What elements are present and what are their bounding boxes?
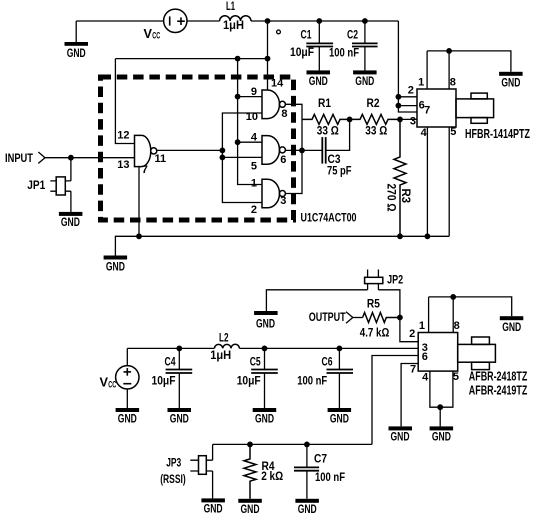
svg-text:C4: C4 bbox=[165, 354, 176, 368]
svg-text:8: 8 bbox=[454, 320, 460, 332]
ground GND7 left of JP2 bbox=[254, 311, 278, 330]
wire U1A output to input rail bbox=[157, 149, 223, 151]
svg-text:GND: GND bbox=[241, 502, 260, 516]
svg-text:GND: GND bbox=[256, 316, 275, 330]
junction dot C6 bbox=[337, 346, 343, 352]
capacitor C3 75pF bbox=[322, 119, 349, 163]
svg-text:2: 2 bbox=[408, 84, 414, 96]
ground GND2 under C1 bbox=[307, 70, 331, 88]
wire top to GND4 bbox=[427, 51, 511, 72]
voltage source Vcc (top) bbox=[164, 9, 187, 32]
junction dot pin6 bbox=[396, 103, 402, 109]
svg-text:C6: C6 bbox=[322, 354, 333, 368]
svg-text:12: 12 bbox=[117, 129, 129, 141]
svg-text:1: 1 bbox=[419, 320, 425, 332]
svg-text:HFBR-1414PTZ: HFBR-1414PTZ bbox=[465, 127, 530, 141]
nand gate U1C (pins 4,5 -> 6) bbox=[262, 136, 285, 165]
wire down to pin 12 bbox=[115, 59, 134, 144]
junction dot pin8/top wire bbox=[446, 48, 452, 54]
svg-text:7: 7 bbox=[424, 105, 430, 117]
svg-text:JP1: JP1 bbox=[27, 178, 45, 192]
svg-text:GND: GND bbox=[106, 260, 125, 274]
svg-text:5: 5 bbox=[251, 161, 257, 173]
svg-text:13: 13 bbox=[117, 159, 129, 171]
ground GND10 under C5 bbox=[253, 408, 277, 425]
junction dot R4 bbox=[247, 442, 253, 448]
wire pin 5 stub bbox=[222, 156, 262, 158]
label Vcc (bottom) bbox=[100, 375, 117, 390]
ground GND16 under R4 bbox=[238, 499, 261, 516]
wire chevron to R5 bbox=[353, 317, 363, 319]
svg-text:GND: GND bbox=[170, 411, 189, 425]
svg-text:GND: GND bbox=[355, 74, 374, 88]
svg-text:V: V bbox=[100, 375, 109, 390]
svg-text:R3: R3 bbox=[399, 189, 413, 204]
wire pins 4/5 to GND13 bbox=[439, 407, 441, 426]
ground GND15 under JP3 bbox=[201, 498, 225, 515]
svg-text:11: 11 bbox=[155, 153, 167, 165]
svg-text:C7: C7 bbox=[314, 452, 327, 466]
wire AFBR pin 7 to GND12 bbox=[401, 364, 418, 427]
RSSI rail bottom bbox=[213, 443, 372, 445]
svg-text:GND: GND bbox=[255, 411, 274, 425]
wire AFBR pins 4,5 down bbox=[430, 371, 453, 407]
svg-text:3: 3 bbox=[280, 195, 286, 207]
wire left rail (pins 10,5,2) bbox=[222, 113, 262, 203]
svg-text:10μF: 10μF bbox=[290, 45, 314, 59]
ground GND12 under pin 7 bbox=[389, 426, 413, 443]
svg-text:1μH: 1μH bbox=[223, 18, 244, 32]
svg-text:(RSSI): (RSSI) bbox=[160, 472, 186, 486]
wire tied-high rail (pins 9,4,1) bbox=[238, 59, 262, 185]
ground GND1 top-left bbox=[65, 21, 89, 60]
wire HFBR pin 8 up bbox=[448, 51, 450, 89]
junction dot R3/gnd rail bbox=[397, 233, 403, 239]
resistor R1 33ohm bbox=[302, 114, 350, 124]
svg-text:14: 14 bbox=[271, 78, 284, 90]
wire to HFBR pin 3 bbox=[398, 118, 417, 120]
svg-text:JP2: JP2 bbox=[387, 272, 403, 286]
svg-text:100 nF: 100 nF bbox=[297, 373, 327, 387]
junction dot pin7/gnd rail bbox=[136, 233, 142, 239]
svg-text:8: 8 bbox=[450, 77, 456, 89]
junction dot R1/R2/C3 bbox=[347, 117, 353, 123]
svg-text:L2: L2 bbox=[219, 331, 229, 345]
junction dot JP1 tap bbox=[68, 155, 74, 161]
HFBR port snout bbox=[456, 99, 494, 118]
junction dot C4 bbox=[176, 346, 182, 352]
svg-text:V: V bbox=[144, 26, 153, 41]
svg-text:GND: GND bbox=[501, 75, 520, 89]
svg-text:9: 9 bbox=[251, 86, 257, 98]
inductor L2 1uH bbox=[214, 344, 239, 348]
svg-text:AFBR-2419TZ: AFBR-2419TZ bbox=[469, 383, 528, 397]
capacitor C6 100nF bbox=[327, 348, 354, 408]
wire pin 2 stub bbox=[398, 96, 417, 98]
capacitor C5 10uF bbox=[251, 348, 278, 408]
AFBR port tab bottom bbox=[472, 362, 490, 369]
svg-text:33 Ω: 33 Ω bbox=[365, 124, 387, 138]
junction dot C5 bbox=[262, 346, 268, 352]
svg-text:10μF: 10μF bbox=[152, 373, 176, 387]
svg-text:100 nF: 100 nF bbox=[329, 45, 359, 59]
svg-text:4: 4 bbox=[422, 372, 429, 384]
svg-text:GND: GND bbox=[118, 411, 137, 425]
ground rail bottom of top section bbox=[115, 236, 449, 256]
nand gate U1D (pins 1,2 -> 3) bbox=[262, 179, 285, 208]
ground GND3 under C2 bbox=[353, 70, 377, 88]
resistor R2 33ohm bbox=[350, 114, 398, 124]
resistor R5 4.7k bbox=[363, 313, 400, 323]
junction dot C2 bbox=[362, 18, 368, 24]
capacitor C1 bbox=[306, 21, 333, 70]
svg-text:CC: CC bbox=[108, 379, 116, 389]
svg-text:4: 4 bbox=[421, 127, 428, 139]
svg-text:3: 3 bbox=[410, 116, 416, 128]
wire GND1 to Vcc source bbox=[76, 20, 163, 22]
wire AFBR pin 1 up bbox=[428, 297, 430, 333]
wire AFBR pin 8 up bbox=[452, 297, 454, 333]
svg-text:R2: R2 bbox=[367, 96, 380, 110]
ground GND6 bottom of U1 bbox=[104, 256, 128, 274]
ground GND9 under C4 bbox=[168, 408, 192, 425]
wire R5 node to AFBR pin 2 bbox=[400, 318, 418, 342]
svg-text:5: 5 bbox=[450, 126, 456, 138]
jumper JP1 bbox=[50, 158, 71, 212]
resistor R3 270ohm vertical bbox=[394, 119, 406, 236]
wire U1C output through to C3 bbox=[285, 149, 322, 151]
wire Vcc2 up to main rail bbox=[126, 348, 128, 365]
junction dot output/rail bbox=[220, 148, 226, 154]
wire JP2 right down to R5 node bbox=[378, 290, 400, 318]
main supply wire bottom section bbox=[127, 347, 214, 349]
output connector chevron bbox=[346, 312, 353, 323]
svg-text:270 Ω: 270 Ω bbox=[384, 184, 398, 212]
svg-text:C1: C1 bbox=[301, 28, 312, 42]
svg-text:L1: L1 bbox=[226, 0, 235, 13]
nand gate U1B (pins 9,10 -> 8) bbox=[262, 90, 285, 119]
capacitor C7 100nF bbox=[294, 444, 319, 498]
voltage source Vcc (bottom) bbox=[116, 366, 139, 389]
ground GND13 under AFBR bbox=[430, 426, 454, 443]
svg-text:5: 5 bbox=[453, 371, 459, 383]
wire L2 to AFBR pin 3 bbox=[239, 347, 418, 349]
svg-text:GND: GND bbox=[330, 411, 349, 425]
resistor R4 2k vertical bbox=[244, 444, 256, 498]
wire pin 9 stub bbox=[238, 96, 262, 98]
svg-text:8: 8 bbox=[281, 108, 287, 120]
junction dot Vcc rail / tied-high net bbox=[265, 56, 271, 62]
capacitor C2 bbox=[352, 21, 378, 70]
svg-text:GND: GND bbox=[67, 46, 86, 60]
svg-text:C2: C2 bbox=[347, 28, 358, 42]
svg-text:C5: C5 bbox=[250, 354, 261, 368]
wire Vcc to L1 bbox=[187, 20, 220, 22]
junction dot pin5/rail bbox=[220, 155, 226, 161]
junction dot pins 4/5 bbox=[437, 404, 443, 410]
optical transmitter HFBR-1414PTZ body bbox=[417, 89, 456, 127]
svg-text:6: 6 bbox=[422, 351, 428, 363]
wire INPUT to pin 13 bbox=[45, 157, 135, 159]
svg-text:2: 2 bbox=[409, 328, 415, 340]
ground GND11 under C6 bbox=[328, 408, 352, 425]
junction dot output rail bbox=[299, 148, 305, 154]
AFBR port tab top bbox=[472, 337, 490, 344]
svg-text:GND: GND bbox=[391, 430, 410, 444]
input connector chevron bbox=[38, 152, 45, 163]
AFBR port snout bbox=[458, 344, 496, 362]
optical receiver AFBR body bbox=[418, 333, 458, 372]
svg-text:AFBR-2418TZ: AFBR-2418TZ bbox=[469, 370, 528, 384]
label Vcc (top) bbox=[144, 26, 161, 41]
svg-text:100 nF: 100 nF bbox=[315, 470, 345, 484]
svg-text:2: 2 bbox=[251, 204, 257, 216]
wire tied-high net horizontal bbox=[115, 58, 267, 60]
ground GND5 under JP1 bbox=[59, 212, 83, 229]
wire pin 6 stub bbox=[398, 105, 417, 107]
svg-text:10: 10 bbox=[246, 111, 258, 123]
junction dot R2/R3/pin3 bbox=[397, 117, 403, 123]
no-connect marker circle bbox=[277, 30, 281, 34]
wire JP2 left to GND7 bbox=[266, 290, 367, 311]
svg-text:GND: GND bbox=[309, 74, 328, 88]
svg-text:1: 1 bbox=[251, 178, 257, 190]
svg-text:1: 1 bbox=[418, 77, 424, 89]
svg-text:10μF: 10μF bbox=[237, 373, 261, 387]
ground GND14 right of AFBR bbox=[500, 316, 524, 334]
wire HFBR pin 1 up bbox=[426, 51, 428, 89]
inductor L1 bbox=[220, 16, 251, 21]
wire U1 Vcc rail down to pin 14 bbox=[267, 21, 269, 91]
junction dot tied-high rail bbox=[235, 56, 241, 62]
wire HFBR pin 5 down bbox=[448, 127, 450, 236]
svg-text:GND: GND bbox=[204, 502, 223, 516]
junction dot pin2 bbox=[396, 94, 402, 100]
junction dot pin9 bbox=[235, 94, 241, 100]
svg-text:7: 7 bbox=[142, 164, 148, 176]
jumper JP3 bbox=[190, 444, 212, 498]
junction dot R5/JP2 bbox=[397, 315, 403, 321]
wire HFBR pin 4 down bbox=[426, 127, 428, 236]
wire U1 pin 7 to ground rail bbox=[138, 167, 140, 237]
junction dot AFBR pin8 bbox=[450, 294, 456, 300]
svg-text:CC: CC bbox=[152, 31, 160, 41]
wire output rail x302 bbox=[285, 104, 302, 193]
IC U1 74ACT00 dashed boundary box bbox=[101, 77, 294, 220]
svg-text:GND: GND bbox=[61, 215, 80, 229]
svg-text:OUTPUT: OUTPUT bbox=[309, 310, 346, 324]
HFBR port tab bottom bbox=[471, 118, 487, 124]
HFBR port tab top bbox=[471, 93, 487, 99]
svg-text:1μH: 1μH bbox=[210, 348, 231, 362]
junction dot pin4 bbox=[235, 139, 241, 145]
nand gate U1A bbox=[135, 135, 157, 166]
junction dot C1 bbox=[316, 18, 322, 24]
svg-text:R1: R1 bbox=[318, 96, 331, 110]
junction dot C7 bbox=[304, 442, 310, 448]
svg-text:33 Ω: 33 Ω bbox=[317, 124, 339, 138]
svg-text:GND: GND bbox=[298, 502, 317, 516]
junction dot HFBR pin4/gnd rail bbox=[425, 233, 431, 239]
svg-text:U1C74ACT00: U1C74ACT00 bbox=[301, 210, 357, 224]
ground GND4 right of HFBR bbox=[499, 72, 522, 90]
wire HFBR left rail from top wire bbox=[398, 21, 417, 112]
wire pin 4 stub bbox=[238, 141, 262, 143]
ground GND17 under C7 bbox=[295, 499, 319, 516]
svg-text:R5: R5 bbox=[367, 297, 380, 311]
ground GND8 under Vcc2 bbox=[116, 408, 140, 425]
svg-text:4.7 kΩ: 4.7 kΩ bbox=[360, 326, 390, 340]
svg-text:75 pF: 75 pF bbox=[327, 163, 352, 177]
svg-text:GND: GND bbox=[432, 430, 451, 444]
svg-text:6: 6 bbox=[280, 154, 286, 166]
svg-text:GND: GND bbox=[502, 320, 521, 334]
svg-text:4: 4 bbox=[251, 131, 258, 143]
jumper JP2 bbox=[365, 270, 383, 290]
junction dot top wire / U1 Vcc bbox=[265, 18, 271, 24]
svg-text:INPUT: INPUT bbox=[5, 151, 34, 165]
svg-text:2 kΩ: 2 kΩ bbox=[261, 469, 283, 483]
svg-text:7: 7 bbox=[410, 364, 416, 376]
wire AFBR pin 6 to RSSI rail bbox=[372, 356, 418, 445]
capacitor C4 10uF bbox=[166, 348, 193, 408]
wire AFBR top to GND14 bbox=[429, 297, 512, 316]
svg-text:JP3: JP3 bbox=[166, 456, 181, 470]
wire Vcc2 down to GND8 bbox=[126, 389, 128, 408]
wire L1 to right rail bbox=[251, 20, 398, 22]
